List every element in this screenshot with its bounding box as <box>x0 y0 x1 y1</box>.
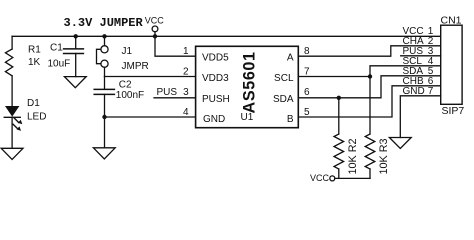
svg-text:A: A <box>287 52 294 63</box>
svg-text:100nF: 100nF <box>116 90 144 101</box>
svg-text:LED: LED <box>27 112 46 123</box>
svg-text:2: 2 <box>183 67 189 78</box>
svg-text:4: 4 <box>183 107 189 118</box>
ground (below C2) <box>93 148 115 159</box>
svg-text:SCL: SCL <box>274 73 294 84</box>
resistor R2 <box>334 134 344 169</box>
wire J1/C2 vertical <box>104 77 106 90</box>
net label VCC pin 1 <box>403 26 434 37</box>
wire pin 6 (SDA) to SDA <box>298 76 440 98</box>
svg-text:GND: GND <box>403 86 425 97</box>
svg-text:GND: GND <box>203 114 225 125</box>
resistor R1 <box>5 49 12 76</box>
ground (left, below LED) <box>1 148 23 159</box>
svg-text:PUS: PUS <box>157 87 178 98</box>
wire R3 to bottom rail <box>369 169 371 178</box>
svg-text:J1: J1 <box>122 46 133 57</box>
node: junction dot C2 / GND wire <box>102 115 106 119</box>
svg-text:C2: C2 <box>119 79 132 90</box>
svg-text:PUSH: PUSH <box>202 94 230 105</box>
label 10K R3 <box>378 138 390 174</box>
wire left vertical from rail to R1 <box>11 36 13 49</box>
svg-text:AS5601: AS5601 <box>241 51 259 113</box>
svg-text:B: B <box>287 114 294 125</box>
wire bottom VCC rail <box>335 177 370 179</box>
label J1 JMPR <box>122 46 149 72</box>
svg-text:VCC: VCC <box>310 173 330 183</box>
svg-text:5: 5 <box>304 107 310 118</box>
wire pin 7 (SCL) to SCL <box>298 66 440 77</box>
resistor R3 <box>365 134 375 169</box>
net label SCL pin 4 <box>403 56 434 67</box>
net label CHA pin 2 <box>403 36 434 47</box>
wire pin 4 (GND) <box>105 116 196 118</box>
wire C1 to ground <box>75 54 77 77</box>
power port VCC (bottom) <box>310 173 330 183</box>
label 3.3V JUMPER <box>64 16 144 30</box>
wire pin 2 (VDD3) <box>105 76 196 78</box>
svg-text:10K R2: 10K R2 <box>347 138 359 174</box>
node: junction dot rail / C1 <box>74 34 78 38</box>
wire junction to ground <box>104 117 106 148</box>
svg-text:SDA: SDA <box>273 94 294 105</box>
label 10K R2 <box>347 138 359 174</box>
wire R3 riser <box>369 77 371 135</box>
node: junction dot pin6 / R2 <box>337 96 341 100</box>
label R1 1K <box>28 45 41 68</box>
wire VCC port to pin1 <box>155 32 196 56</box>
label D1 LED <box>27 98 46 123</box>
node: junction dot rail / J1 <box>102 34 106 38</box>
wire rail to C1 <box>75 36 77 48</box>
wire pin 5 (B) to CHB <box>298 86 440 117</box>
ground (below CN1) <box>389 138 411 149</box>
net label PUS + wire pin 3 (PUSH) <box>154 97 196 99</box>
capacitor C1 <box>64 49 84 54</box>
jumper J1 JMPR <box>97 46 109 68</box>
net label PUS pin 3 + wire <box>401 55 441 57</box>
svg-text:8: 8 <box>304 46 310 57</box>
capacitor C2 <box>94 89 114 94</box>
svg-text:JMPR: JMPR <box>122 61 149 72</box>
svg-text:10K R3: 10K R3 <box>378 138 390 174</box>
LED D1 <box>4 106 22 131</box>
op-amp U1 AS5601 chip body <box>196 46 299 127</box>
svg-text:6: 6 <box>304 87 310 98</box>
pin numbers left (1-4) <box>183 46 189 118</box>
svg-text:3.3V JUMPER: 3.3V JUMPER <box>64 16 144 30</box>
power rail VCC net (top horizontal wire) <box>12 35 441 37</box>
label C1 10uF <box>48 43 71 70</box>
svg-text:VDD3: VDD3 <box>202 73 229 84</box>
label C2 100nF <box>116 79 144 101</box>
svg-text:VCC: VCC <box>145 16 165 26</box>
wire pin 8 (A) to CHA <box>298 46 440 56</box>
node: junction dot pin7 / R3 <box>368 74 372 78</box>
net label CHB pin 6 <box>403 76 434 87</box>
net label GND pin 7 + wire <box>400 96 440 138</box>
svg-text:C1: C1 <box>50 43 63 54</box>
svg-text:R1: R1 <box>28 45 41 56</box>
power port VCC (top) <box>145 16 165 26</box>
wire R1 to LED <box>11 76 13 106</box>
wire LED to ground <box>11 117 13 148</box>
ground (below C1) <box>64 77 86 88</box>
wire C2 to pin4 row <box>104 94 106 117</box>
svg-text:SIP7: SIP7 <box>442 105 465 117</box>
svg-text:U1: U1 <box>241 112 254 123</box>
connector CN1 box <box>441 25 462 104</box>
svg-text:7: 7 <box>428 86 434 97</box>
svg-text:1: 1 <box>183 46 189 57</box>
pin numbers right (8-5) <box>304 46 310 118</box>
svg-text:3: 3 <box>183 87 189 98</box>
svg-text:CN1: CN1 <box>441 14 462 26</box>
svg-text:10uF: 10uF <box>48 59 71 70</box>
svg-text:1K: 1K <box>28 57 41 68</box>
svg-text:D1: D1 <box>27 98 40 109</box>
wire R2 to bottom rail <box>338 169 340 178</box>
node: junction dot VCC riser / rail <box>153 34 157 38</box>
wire rail to J1 <box>104 36 106 45</box>
svg-text:VDD5: VDD5 <box>202 52 229 63</box>
net label SDA pin 5 <box>403 66 434 77</box>
wire R2 riser <box>338 98 340 134</box>
wire J1 to pin2 row <box>104 67 106 76</box>
